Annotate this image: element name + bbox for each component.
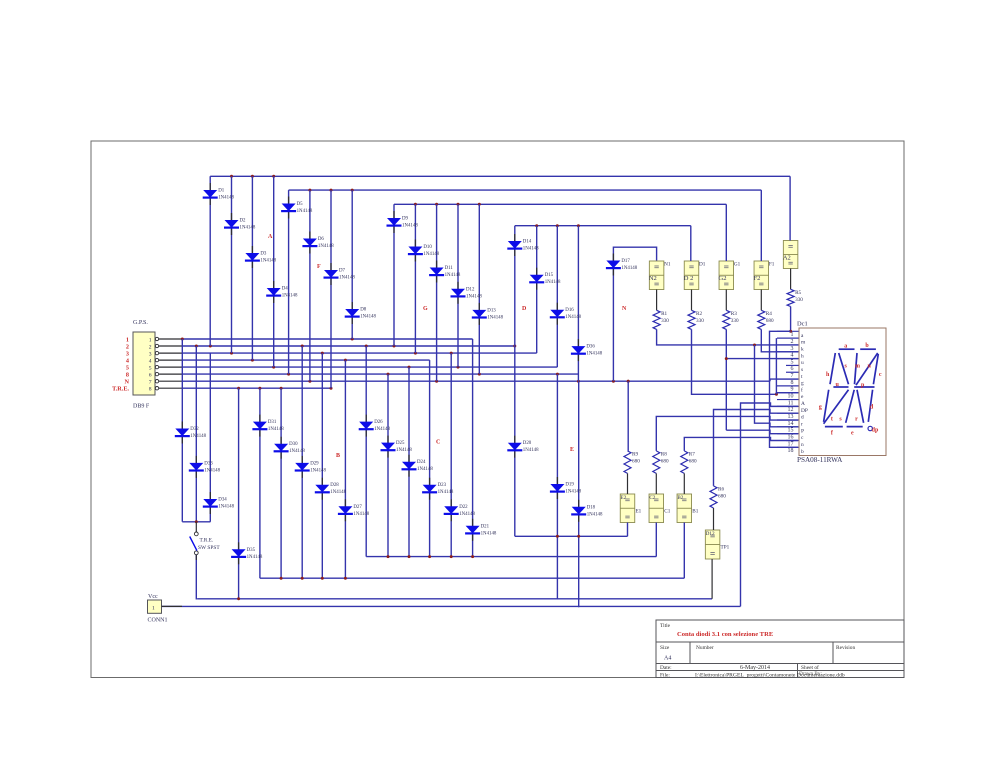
svg-text:1N4148: 1N4148 (445, 273, 461, 278)
svg-text:1N4148: 1N4148 (587, 512, 603, 517)
svg-text:17: 17 (788, 441, 794, 447)
wire col D28 (321, 353, 323, 578)
svg-text:1N4148: 1N4148 (247, 555, 263, 560)
svg-text:D22: D22 (459, 505, 468, 510)
svg-text:6-May-2014: 6-May-2014 (740, 665, 770, 671)
wire col D4 (273, 176, 275, 367)
diode D32 (175, 422, 207, 444)
svg-text:D13: D13 (487, 308, 496, 313)
wire col D9 (393, 204, 395, 346)
wire C1 to bus C (655, 523, 657, 557)
svg-text:R9: R9 (632, 451, 638, 457)
diode D21 (465, 519, 497, 541)
DB9 pin 1 (126, 337, 182, 344)
diode D23 (422, 478, 454, 500)
jumper C1 (649, 494, 671, 523)
wire col D2 (231, 176, 233, 353)
svg-text:R5: R5 (795, 290, 801, 296)
wire N2 to R1 (656, 290, 658, 311)
svg-text:D3: D3 (260, 252, 267, 257)
svg-text:Conta diodi 3.1 con selezione: Conta diodi 3.1 con selezione TRE (677, 631, 774, 638)
wire bus C (366, 556, 656, 558)
wire R7 to B1 (683, 473, 685, 494)
display pin 5 (777, 359, 804, 367)
DB9 pin 6 (126, 372, 182, 379)
svg-text:1N4148: 1N4148 (545, 280, 561, 285)
svg-text:1N4148: 1N4148 (621, 266, 637, 271)
wire TP1 to switch bus (711, 559, 713, 599)
diode D4 (266, 281, 298, 303)
wire R6 to TP1 (713, 508, 715, 530)
wire col D34 (209, 353, 211, 522)
svg-text:1N4148: 1N4148 (190, 434, 206, 439)
svg-text:a: a (844, 344, 847, 350)
svg-text:1N4148: 1N4148 (318, 244, 334, 249)
svg-text:D19: D19 (565, 483, 574, 488)
svg-text:C2: C2 (649, 495, 655, 501)
wire bus left trio (182, 521, 210, 523)
wire pin2 drop (775, 338, 777, 394)
diode D17 (606, 254, 638, 276)
svg-text:8: 8 (126, 372, 129, 379)
svg-text:CONN1: CONN1 (148, 618, 168, 624)
wire col D36 (577, 226, 579, 382)
svg-text:C1: C1 (664, 508, 670, 514)
display pin 11 (777, 400, 805, 408)
wire bus G drop to G1 (725, 204, 727, 261)
svg-text:1N4148: 1N4148 (360, 315, 376, 320)
jumper F2 (754, 261, 775, 290)
svg-text:Vcc: Vcc (148, 594, 158, 600)
svg-text:D30: D30 (289, 442, 298, 447)
jumper D 2 (684, 261, 706, 290)
svg-text:F: F (317, 264, 321, 270)
display pin 17 (786, 441, 804, 449)
svg-text:680: 680 (632, 458, 640, 464)
wire Vcc riser to pin12 (741, 403, 799, 606)
display pin 7 (786, 372, 803, 380)
svg-text:C: C (436, 440, 440, 446)
wire bus A drop to A2 (789, 176, 791, 240)
svg-text:3: 3 (149, 351, 152, 357)
svg-text:D36: D36 (586, 345, 595, 350)
svg-text:1N4148: 1N4148 (565, 315, 581, 320)
wire pin7 bus corner to R9 (627, 381, 629, 451)
svg-text:3: 3 (791, 346, 794, 352)
svg-text:D10: D10 (423, 245, 432, 250)
diode D24 (402, 455, 434, 477)
svg-text:A4: A4 (664, 656, 671, 662)
svg-text:G1: G1 (734, 262, 741, 268)
display pin 3 (777, 345, 804, 353)
svg-text:1N4148: 1N4148 (487, 315, 503, 320)
diode D7 (324, 263, 356, 285)
wire R6 top to pin13 (714, 410, 799, 486)
svg-text:T.R.E.: T.R.E. (112, 386, 129, 393)
display pin 18 (777, 447, 804, 455)
svg-text:TP1: TP1 (721, 545, 730, 551)
display Dc1 PSA08-11RWA (797, 321, 886, 465)
wire col D12 (457, 204, 459, 367)
DB9 pin 5 (126, 365, 182, 372)
wire A2 to R5 (790, 269, 792, 290)
jumper A2 (783, 241, 798, 269)
wire F2 to R4 (760, 290, 762, 311)
svg-text:A2: A2 (783, 254, 791, 261)
junction dots on DB9 buses (181, 338, 630, 390)
svg-text:680: 680 (718, 493, 726, 499)
svg-text:4: 4 (791, 353, 794, 359)
diode D8 (345, 302, 377, 324)
display pin 8 (777, 379, 804, 387)
svg-text:1N4148: 1N4148 (565, 490, 581, 495)
wire col D21 (472, 339, 474, 557)
svg-text:DB9 F: DB9 F (133, 404, 150, 410)
diode D20 (507, 436, 539, 458)
wire bus A (210, 175, 790, 177)
svg-text:I:\Elettronica\PRGEL_progetti\: I:\Elettronica\PRGEL_progetti\Contamonet… (695, 672, 796, 678)
jumper N2 (649, 261, 671, 290)
diode D1 (203, 183, 235, 205)
svg-text:1N4148: 1N4148 (586, 352, 602, 357)
wire col D31 (259, 388, 261, 578)
resistor R4 (758, 310, 774, 329)
wire R8 to pin14 (656, 416, 798, 451)
wire col D1 (209, 176, 211, 346)
svg-text:D7: D7 (339, 269, 346, 274)
diode D12 (451, 282, 483, 304)
svg-text:Number: Number (696, 645, 714, 651)
svg-text:5: 5 (126, 365, 129, 372)
resistor R3 (723, 310, 739, 329)
svg-text:1N4148: 1N4148 (268, 427, 284, 432)
svg-text:g: g (819, 405, 822, 411)
display pin 1 (777, 331, 804, 339)
svg-text:f: f (801, 386, 803, 393)
svg-text:F2: F2 (754, 275, 761, 282)
svg-text:D12: D12 (706, 531, 715, 537)
resistor R7 (681, 451, 697, 474)
svg-text:D8: D8 (360, 308, 367, 313)
svg-text:1N4148: 1N4148 (218, 196, 234, 201)
diode D11 (429, 261, 461, 283)
svg-text:14: 14 (788, 421, 794, 427)
svg-text:Size: Size (660, 645, 670, 651)
svg-text:1: 1 (126, 337, 129, 344)
svg-text:g: g (801, 381, 804, 387)
svg-text:1N4148: 1N4148 (240, 226, 256, 231)
svg-text:R1: R1 (661, 311, 667, 317)
wire col D29 (301, 346, 303, 578)
svg-text:1N4148: 1N4148 (523, 448, 539, 453)
diode D9 (387, 211, 419, 233)
svg-text:R2: R2 (696, 311, 702, 317)
svg-text:r: r (801, 422, 803, 428)
wire col D23 (429, 360, 431, 556)
DB9 pin 4 (126, 358, 182, 365)
svg-text:D33: D33 (204, 461, 213, 466)
svg-text:D25: D25 (396, 441, 405, 446)
wire bus D drop to D1 jumper (690, 226, 692, 261)
diode D2 (224, 213, 256, 235)
svg-text:R6: R6 (718, 486, 724, 492)
svg-text:E1: E1 (635, 508, 641, 514)
svg-text:18: 18 (788, 448, 794, 454)
diode D10 (408, 240, 440, 262)
diode D13 (472, 303, 504, 325)
svg-text:B1: B1 (692, 508, 698, 514)
wire R4 to pin4 (761, 329, 798, 351)
svg-text:5: 5 (791, 359, 794, 365)
wire R3 to pin5 (725, 329, 727, 430)
svg-text:1N4148: 1N4148 (417, 467, 433, 472)
resistor R2 (688, 310, 704, 329)
svg-text:s: s (801, 367, 803, 373)
svg-text:1: 1 (791, 332, 794, 338)
svg-text:D15: D15 (545, 273, 554, 278)
svg-text:Revision: Revision (836, 645, 855, 651)
svg-text:File:: File: (660, 672, 670, 678)
wire col D22 (450, 353, 452, 556)
wire col D27 (344, 360, 346, 578)
svg-text:1N4148: 1N4148 (330, 490, 346, 495)
svg-text:SW SPST: SW SPST (198, 545, 220, 551)
wire pin3 drop to pin15 (755, 345, 799, 427)
svg-text:D26: D26 (374, 420, 383, 425)
svg-text:4: 4 (149, 358, 152, 364)
wire G2 to R3 (725, 290, 727, 311)
svg-text:6: 6 (149, 372, 152, 378)
svg-text:D11: D11 (445, 266, 454, 271)
svg-text:9: 9 (791, 387, 794, 393)
svg-text:D1: D1 (699, 262, 706, 268)
diode D31 (252, 415, 284, 437)
svg-text:3: 3 (126, 351, 129, 358)
wire DB9 pin 2 bus (182, 345, 515, 347)
svg-text:h: h (801, 353, 804, 359)
svg-text:D18: D18 (587, 505, 596, 510)
svg-text:P: P (801, 428, 804, 434)
svg-text:1N4148: 1N4148 (374, 427, 390, 432)
diode D25 (381, 436, 413, 458)
svg-text:D21: D21 (481, 524, 490, 529)
diode D27 (338, 499, 370, 521)
diode D5 (281, 197, 313, 219)
svg-text:1N4148: 1N4148 (297, 209, 313, 214)
display pin 2 (777, 338, 806, 346)
wire col D14/D20 (514, 226, 516, 537)
svg-text:1N4148: 1N4148 (204, 468, 220, 473)
svg-text:D12: D12 (466, 287, 475, 292)
svg-text:DP: DP (801, 408, 808, 414)
junction dots on bottom buses (195, 520, 580, 600)
svg-text:D9: D9 (402, 217, 409, 222)
wire col D26 (365, 346, 367, 557)
wire DB9 pin 7 bus (182, 380, 628, 382)
svg-text:680: 680 (661, 458, 669, 464)
svg-text:1N4148: 1N4148 (310, 468, 326, 473)
svg-text:G2: G2 (719, 275, 727, 282)
switch S1 T.R.E. SW SPST (190, 522, 221, 555)
svg-text:D32: D32 (190, 427, 199, 432)
sheet border (91, 141, 904, 678)
display pin 13 (777, 413, 804, 421)
display pin 15 (777, 427, 804, 435)
wire E1 to bus E (627, 523, 629, 537)
wire col D11 (436, 204, 438, 381)
svg-text:15: 15 (788, 428, 794, 434)
display pin 16 (777, 434, 804, 442)
svg-text:1N4148: 1N4148 (353, 512, 369, 517)
svg-text:330: 330 (731, 318, 739, 324)
wire col D17 (612, 257, 614, 382)
svg-text:12: 12 (788, 407, 794, 413)
wire DB9 pin7 net to display pin8 (628, 380, 770, 382)
svg-text:1N4148: 1N4148 (260, 259, 276, 264)
svg-text:330: 330 (795, 297, 803, 303)
svg-text:F1: F1 (769, 262, 775, 268)
svg-text:8: 8 (149, 387, 152, 393)
diode D34 (203, 492, 235, 514)
svg-text:7: 7 (149, 380, 152, 386)
svg-text:m: m (855, 364, 860, 370)
svg-text:R7: R7 (689, 451, 695, 457)
display pin 9 (777, 386, 803, 394)
svg-text:1N4148: 1N4148 (396, 448, 412, 453)
diode D35 (231, 542, 263, 564)
wire DB9 pin 1 bus (182, 338, 473, 340)
svg-text:2: 2 (791, 339, 794, 345)
wire DB9 pin 4 bus (182, 359, 430, 361)
svg-text:6: 6 (791, 366, 794, 372)
svg-text:10: 10 (788, 394, 794, 400)
svg-text:1N4148: 1N4148 (438, 490, 454, 495)
jumper TP1 (705, 530, 729, 559)
svg-text:t: t (831, 417, 833, 423)
wire DB9 pin 6 bus (182, 373, 578, 375)
display segments (824, 349, 879, 430)
svg-text:1N4148: 1N4148 (423, 252, 439, 257)
diode D6 (302, 232, 334, 254)
wire col D35 (238, 388, 240, 599)
svg-text:680: 680 (766, 318, 774, 324)
svg-text:n: n (801, 442, 804, 448)
svg-text:D23: D23 (438, 483, 447, 488)
svg-text:Title: Title (660, 623, 671, 629)
wire col D25 (387, 374, 389, 556)
svg-text:G: G (423, 306, 428, 312)
DB9 pin 3 (126, 351, 182, 358)
junction dots on top buses (230, 175, 580, 227)
svg-text:D29: D29 (310, 461, 319, 466)
svg-text:D28: D28 (330, 483, 339, 488)
svg-text:13: 13 (788, 414, 794, 420)
wire col D32 (181, 339, 183, 522)
svg-text:1N4148: 1N4148 (289, 449, 305, 454)
svg-text:e: e (851, 431, 854, 437)
display pin 14 (777, 420, 803, 428)
wire bus B (260, 577, 684, 579)
svg-text:A: A (801, 401, 805, 407)
wire bus G (394, 203, 726, 205)
diode D19 (550, 477, 582, 499)
diode D36 (571, 339, 603, 361)
svg-text:PSA08-11RWA: PSA08-11RWA (797, 456, 843, 464)
DB9 pin 2 (126, 344, 182, 351)
resistor R6 (710, 486, 726, 508)
svg-text:r: r (855, 417, 858, 423)
svg-text:D1: D1 (218, 189, 225, 194)
wire col D19 (556, 374, 558, 599)
wire col D33 (195, 346, 197, 522)
svg-text:E: E (570, 447, 574, 453)
svg-text:330: 330 (661, 318, 669, 324)
display segment letters (819, 343, 882, 437)
svg-text:N2: N2 (649, 275, 657, 282)
diode D29 (295, 456, 327, 478)
svg-text:D27: D27 (353, 505, 362, 510)
diode D16 (550, 303, 582, 325)
wire bus D (515, 225, 691, 227)
svg-text:T.R.E.: T.R.E. (200, 538, 214, 544)
title block text (660, 623, 855, 678)
svg-text:A: A (268, 234, 273, 240)
svg-text:c: c (879, 372, 882, 378)
svg-text:680: 680 (689, 458, 697, 464)
resistor R5 (787, 289, 803, 306)
diode D18 (571, 500, 603, 522)
wire col D15 (536, 226, 538, 353)
wire col D16 (556, 226, 558, 367)
svg-text:D17: D17 (621, 259, 630, 264)
svg-text:D6: D6 (318, 237, 325, 242)
diode D28 (315, 478, 347, 500)
svg-text:B: B (336, 453, 340, 459)
svg-text:D 2: D 2 (684, 275, 694, 282)
svg-text:5: 5 (149, 365, 152, 371)
wire bus E (515, 535, 628, 537)
wire R5 to pin1 (790, 307, 792, 332)
svg-text:1: 1 (152, 606, 155, 612)
svg-text:D5: D5 (297, 202, 304, 207)
svg-text:Sheet of: Sheet of (801, 664, 819, 671)
svg-text:B2: B2 (677, 495, 683, 501)
wire R2 to pin10 (692, 329, 799, 394)
display pin 4 (777, 352, 804, 360)
wire col D7 (330, 190, 332, 388)
display pin 6 (786, 365, 803, 373)
svg-text:1N4148: 1N4148 (459, 512, 475, 517)
svg-text:D2: D2 (240, 219, 247, 224)
wire DB9 pin 8 bus (182, 387, 331, 389)
svg-text:1N4148: 1N4148 (339, 276, 355, 281)
svg-text:dp: dp (872, 428, 879, 434)
svg-text:1N4148: 1N4148 (218, 505, 234, 510)
wire col D13 (478, 204, 480, 374)
svg-text:1N4148: 1N4148 (481, 531, 497, 536)
display pin 10 (777, 393, 804, 401)
wire R7 to pin17 (684, 437, 798, 451)
svg-text:D35: D35 (247, 548, 256, 553)
svg-text:N1: N1 (664, 262, 671, 268)
svg-text:D16: D16 (565, 308, 574, 313)
diode D22 (444, 499, 476, 521)
wire bus Vcc (161, 605, 740, 607)
svg-text:d: d (801, 415, 804, 421)
wire col D10 (414, 204, 416, 353)
svg-text:1N4148: 1N4148 (402, 224, 418, 229)
svg-text:Dc1: Dc1 (797, 321, 808, 328)
